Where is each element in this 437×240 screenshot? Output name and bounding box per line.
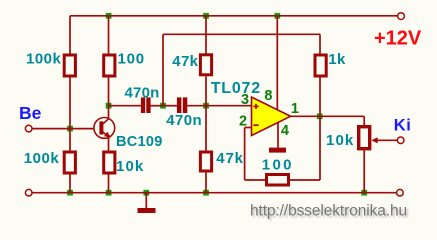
junction node B after C2 [203, 103, 209, 109]
terminal Ki output [397, 137, 404, 144]
svg-text:Ki: Ki [394, 116, 412, 134]
wire top +12V rail [70, 15, 398, 17]
ground symbol at rail [138, 193, 156, 213]
wire rail to R3 top [205, 16, 207, 55]
svg-text:10k: 10k [116, 158, 144, 175]
wire pin 4 ground stub [277, 122, 279, 148]
wire R5 bottom to ground rail [69, 174, 71, 193]
junction base node [67, 126, 73, 132]
svg-text:http://bsselektronika.hu: http://bsselektronika.hu [250, 203, 407, 220]
junction ground rail at R5 [67, 190, 73, 196]
resistor R3 47k [200, 55, 211, 75]
wire left column top (rail to R1) [69, 16, 71, 55]
wire feedback bottom right segment [290, 179, 320, 181]
wire bootstrap horizontal [163, 33, 320, 35]
capacitor C2 470n [177, 97, 187, 113]
resistor R8 100 horizontal [267, 175, 289, 186]
wire C1 to node A [150, 105, 163, 107]
svg-text:100k: 100k [24, 150, 60, 167]
svg-text:10k: 10k [326, 132, 354, 149]
svg-text:3: 3 [241, 92, 249, 108]
wire base input [32, 128, 95, 130]
svg-text:470n: 470n [125, 85, 160, 102]
wire emitter to R6 [108, 138, 110, 152]
wire ground rail [32, 192, 397, 194]
svg-text:Be: Be [19, 103, 42, 123]
resistor R4 1k [315, 55, 326, 76]
resistor R2 100 [104, 55, 115, 76]
resistor R7 47k [200, 152, 211, 171]
op-amp plus sign [253, 104, 258, 109]
junction ground rail at R6 [106, 190, 112, 196]
svg-text:BC109: BC109 [116, 134, 163, 150]
wire R7 bottom to ground rail [205, 172, 207, 193]
junction collector node [106, 103, 112, 109]
wire to R4 top [319, 34, 321, 54]
transistor Q1 BC109 [94, 118, 115, 139]
wire pot bottom to ground rail [363, 150, 365, 193]
svg-text:+12V: +12V [374, 28, 422, 50]
wire output corner to pot top [363, 116, 365, 126]
resistor R6 10k [104, 152, 115, 173]
junction top rail at R3 column [203, 13, 209, 19]
wire op-amp output [291, 115, 365, 117]
wire output node down [319, 116, 321, 180]
svg-text:470n: 470n [166, 112, 202, 129]
wire node B to R7 top [205, 106, 207, 152]
capacitor C1 470n [141, 97, 151, 113]
svg-text:TL072: TL072 [211, 80, 261, 97]
junction output node [317, 113, 323, 119]
potentiometer P1 10k body [359, 127, 370, 149]
wire collector node to C1 [109, 105, 142, 107]
resistor R1 100k [64, 55, 75, 76]
wire pin 8 supply [276, 16, 278, 111]
svg-text:2: 2 [239, 113, 247, 129]
terminal ground left [25, 189, 32, 196]
svg-text:100: 100 [262, 157, 294, 174]
wire node A to C2 [163, 105, 177, 107]
wire R6 bottom to ground rail [108, 174, 110, 193]
ground symbol at op-amp pin 4 [269, 148, 286, 153]
resistor R5 100k [64, 152, 75, 173]
wire feedback vertical to pin 2 [244, 128, 246, 181]
wire R1 bottom to R5 top through base node [69, 77, 71, 152]
wire R2 bottom to collector node [108, 77, 110, 106]
terminal Be input [25, 125, 32, 132]
svg-text:100k: 100k [26, 51, 62, 68]
junction top rail at pin 8 column [274, 13, 280, 19]
terminal +12V [398, 13, 405, 20]
wire R3 bottom to node B [205, 77, 207, 106]
wire pin 2 stub [245, 127, 252, 129]
junction top rail at 100-ohm column [106, 13, 112, 19]
wire pot wiper [373, 139, 397, 141]
junction ground rail at ground symbol [143, 190, 149, 196]
op-amp minus sign [253, 124, 258, 126]
terminal ground right [397, 189, 404, 196]
wire collector node to transistor [108, 106, 110, 119]
svg-text:1: 1 [291, 101, 299, 117]
junction ground rail at R7 [203, 190, 209, 196]
wire feedback bottom left segment [245, 179, 266, 181]
wire C2 to op-amp pin 3 [187, 105, 251, 107]
junction node A between capacitors [160, 103, 166, 109]
wire node A up [162, 34, 164, 105]
svg-text:1k: 1k [328, 51, 346, 68]
op-amp U1 TL072 [252, 97, 291, 136]
potentiometer P1 wiper arrow [372, 137, 378, 143]
svg-text:47k: 47k [172, 53, 198, 70]
junction ground rail at pot [361, 190, 367, 196]
svg-text:4: 4 [281, 123, 289, 139]
wire R4 bottom to output node [319, 77, 321, 116]
svg-text:100: 100 [118, 51, 145, 68]
svg-text:8: 8 [264, 88, 272, 104]
svg-text:47k: 47k [216, 150, 243, 167]
wire 100-ohm column (rail to R2) [108, 16, 110, 55]
